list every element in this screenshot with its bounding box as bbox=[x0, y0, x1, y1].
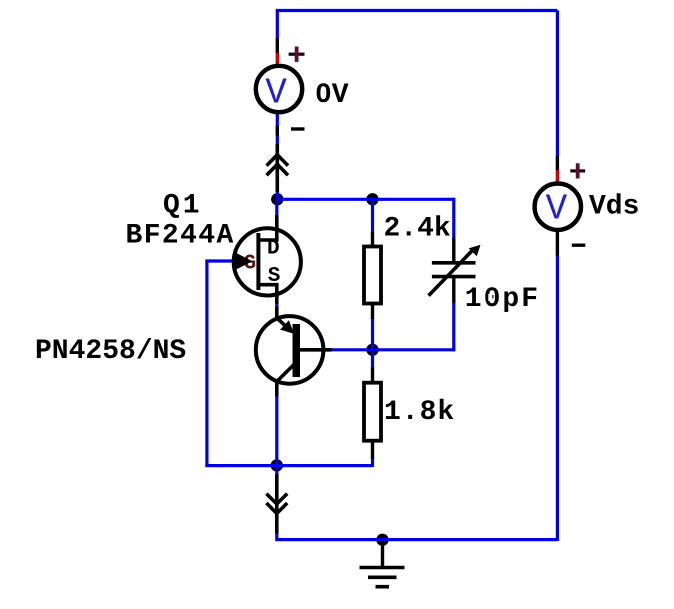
wire top rail bbox=[277, 11, 557, 41]
current arrow up (drain current probe) bbox=[267, 144, 288, 192]
ground bar 2 bbox=[368, 575, 397, 579]
svg-text:Q1: Q1 bbox=[163, 191, 203, 222]
capacitor C1 top plate bbox=[432, 261, 476, 265]
voltmeter V1 black lead bbox=[276, 39, 279, 54]
wire bottom-left horizontal (source node) bbox=[205, 464, 372, 467]
capacitor C1 top lead bbox=[452, 238, 455, 262]
label 1.8k bbox=[384, 397, 455, 428]
svg-text:BF244A: BF244A bbox=[126, 221, 235, 252]
BJT Q2 base bar bbox=[293, 324, 301, 377]
wire 1.8k upper lead bbox=[371, 350, 374, 369]
voltmeter V1 plus sign bbox=[289, 47, 305, 62]
wire base node horizontal (BJT base to cap) bbox=[330, 348, 454, 351]
svg-text:V: V bbox=[265, 73, 287, 114]
JFET Q1 gate arrowhead bbox=[236, 253, 253, 270]
JFET Q1 circle bbox=[234, 228, 301, 295]
label PN4258/NS bbox=[35, 336, 186, 367]
voltmeter V2 minus sign bbox=[572, 243, 586, 246]
wire capacitor branch lower bbox=[452, 302, 455, 351]
wire right side from Vds meter down to bottom rail bbox=[556, 255, 559, 541]
wire 2.4k lower lead bbox=[371, 318, 374, 351]
JFET Q1 pin label D bbox=[267, 238, 280, 261]
label Vds bbox=[589, 191, 639, 222]
svg-text:10pF: 10pF bbox=[465, 284, 540, 315]
label BF244A bbox=[126, 221, 235, 252]
svg-text:S: S bbox=[268, 265, 281, 288]
capacitor C1 bottom plate bbox=[432, 275, 476, 279]
wire 1.8k lower lead bbox=[371, 458, 374, 467]
resistor R1 2.4k body bbox=[364, 247, 381, 304]
BJT Q2 circle bbox=[256, 316, 324, 384]
BJT Q2 emitter arrowhead bbox=[280, 320, 294, 334]
BJT Q2 collector lead bbox=[277, 365, 294, 397]
voltmeter V2 plus sign bbox=[570, 163, 585, 178]
wire node A to JFET drain bbox=[275, 199, 278, 215]
wire 2.4k upper lead bbox=[371, 199, 374, 233]
voltmeter V1 minus tick bbox=[276, 126, 279, 136]
ground stem bbox=[381, 543, 384, 568]
resistor R2 1.8k lead bottom bbox=[371, 441, 374, 460]
voltmeter V1 minus sign bbox=[291, 127, 305, 130]
voltmeter V2 red plus lead bbox=[556, 170, 559, 182]
voltmeter V1 V glyph bbox=[265, 73, 287, 114]
JFET Q1 drain internal bbox=[258, 228, 276, 240]
wire right side drop to Vds meter bbox=[556, 11, 559, 159]
wire chevron segment to node A bbox=[276, 191, 279, 200]
voltmeter V1 red plus lead bbox=[276, 53, 279, 65]
ground bar 1 bbox=[360, 566, 405, 570]
resistor R2 1.8k lead top bbox=[371, 368, 374, 383]
svg-text:1.8k: 1.8k bbox=[384, 397, 455, 428]
wire capacitor branch upper bbox=[452, 198, 455, 239]
BJT Q2 base lead bbox=[299, 348, 332, 352]
voltmeter V2 minus lead bbox=[556, 232, 559, 256]
BJT Q2 emitter lead bbox=[277, 307, 292, 332]
capacitor C1 variable arrow bbox=[429, 245, 481, 296]
resistor R2 1.8k body bbox=[364, 383, 381, 441]
resistor R1 2.4k lead top bbox=[371, 232, 374, 246]
JFET Q1 pin label S bbox=[268, 265, 281, 288]
zero glyph dot cover 10pF bbox=[488, 294, 492, 301]
label 10pF bbox=[465, 284, 540, 315]
zero glyph dot cover 0V bbox=[321, 90, 325, 97]
wire bottom node down to chevron bbox=[275, 466, 278, 476]
wire bottom chevron to bottom rail bbox=[277, 532, 558, 540]
label 2.4k bbox=[384, 214, 451, 245]
JFET Q1 gate bar bbox=[256, 233, 260, 290]
JFET Q1 pin label G bbox=[244, 253, 257, 276]
JFET Q1 drain lead bbox=[258, 215, 276, 240]
node dot ground bbox=[376, 534, 388, 546]
voltmeter V2 black lead bbox=[556, 157, 559, 171]
wire top node horizontal (drain node) bbox=[276, 198, 454, 201]
wire BJT collector down to bottom node bbox=[275, 395, 278, 467]
ground bar 3 bbox=[376, 585, 390, 589]
voltmeter V2 V glyph bbox=[546, 189, 568, 230]
node dot between resistors bbox=[366, 344, 378, 356]
voltmeter V2 circle bbox=[535, 184, 581, 230]
svg-text:Vds: Vds bbox=[589, 191, 639, 222]
svg-text:D: D bbox=[267, 238, 280, 261]
capacitor C1 bottom lead bbox=[452, 278, 455, 303]
wire below V1 meter to chevron bbox=[276, 114, 279, 146]
svg-text:2.4k: 2.4k bbox=[384, 214, 451, 245]
node dot bottom (source node) bbox=[271, 459, 283, 471]
JFET Q1 source internal bbox=[258, 285, 276, 304]
wire gate horizontal to JFET bbox=[205, 259, 234, 262]
current arrow down (source current probe) bbox=[266, 474, 287, 534]
label 0V bbox=[315, 80, 349, 111]
wire gate vertical bbox=[205, 260, 208, 467]
wire JFET source to BJT emitter bbox=[275, 299, 278, 308]
resistor R1 2.4k lead bottom bbox=[371, 304, 374, 319]
svg-text:PN4258/NS: PN4258/NS bbox=[35, 336, 186, 367]
voltmeter V1 circle bbox=[256, 66, 302, 112]
svg-text:V: V bbox=[546, 189, 568, 230]
node A dot (drain node) bbox=[271, 193, 283, 205]
label Q1 bbox=[163, 191, 203, 222]
node dot resistor top bbox=[366, 193, 378, 205]
svg-text:0V: 0V bbox=[315, 80, 349, 111]
